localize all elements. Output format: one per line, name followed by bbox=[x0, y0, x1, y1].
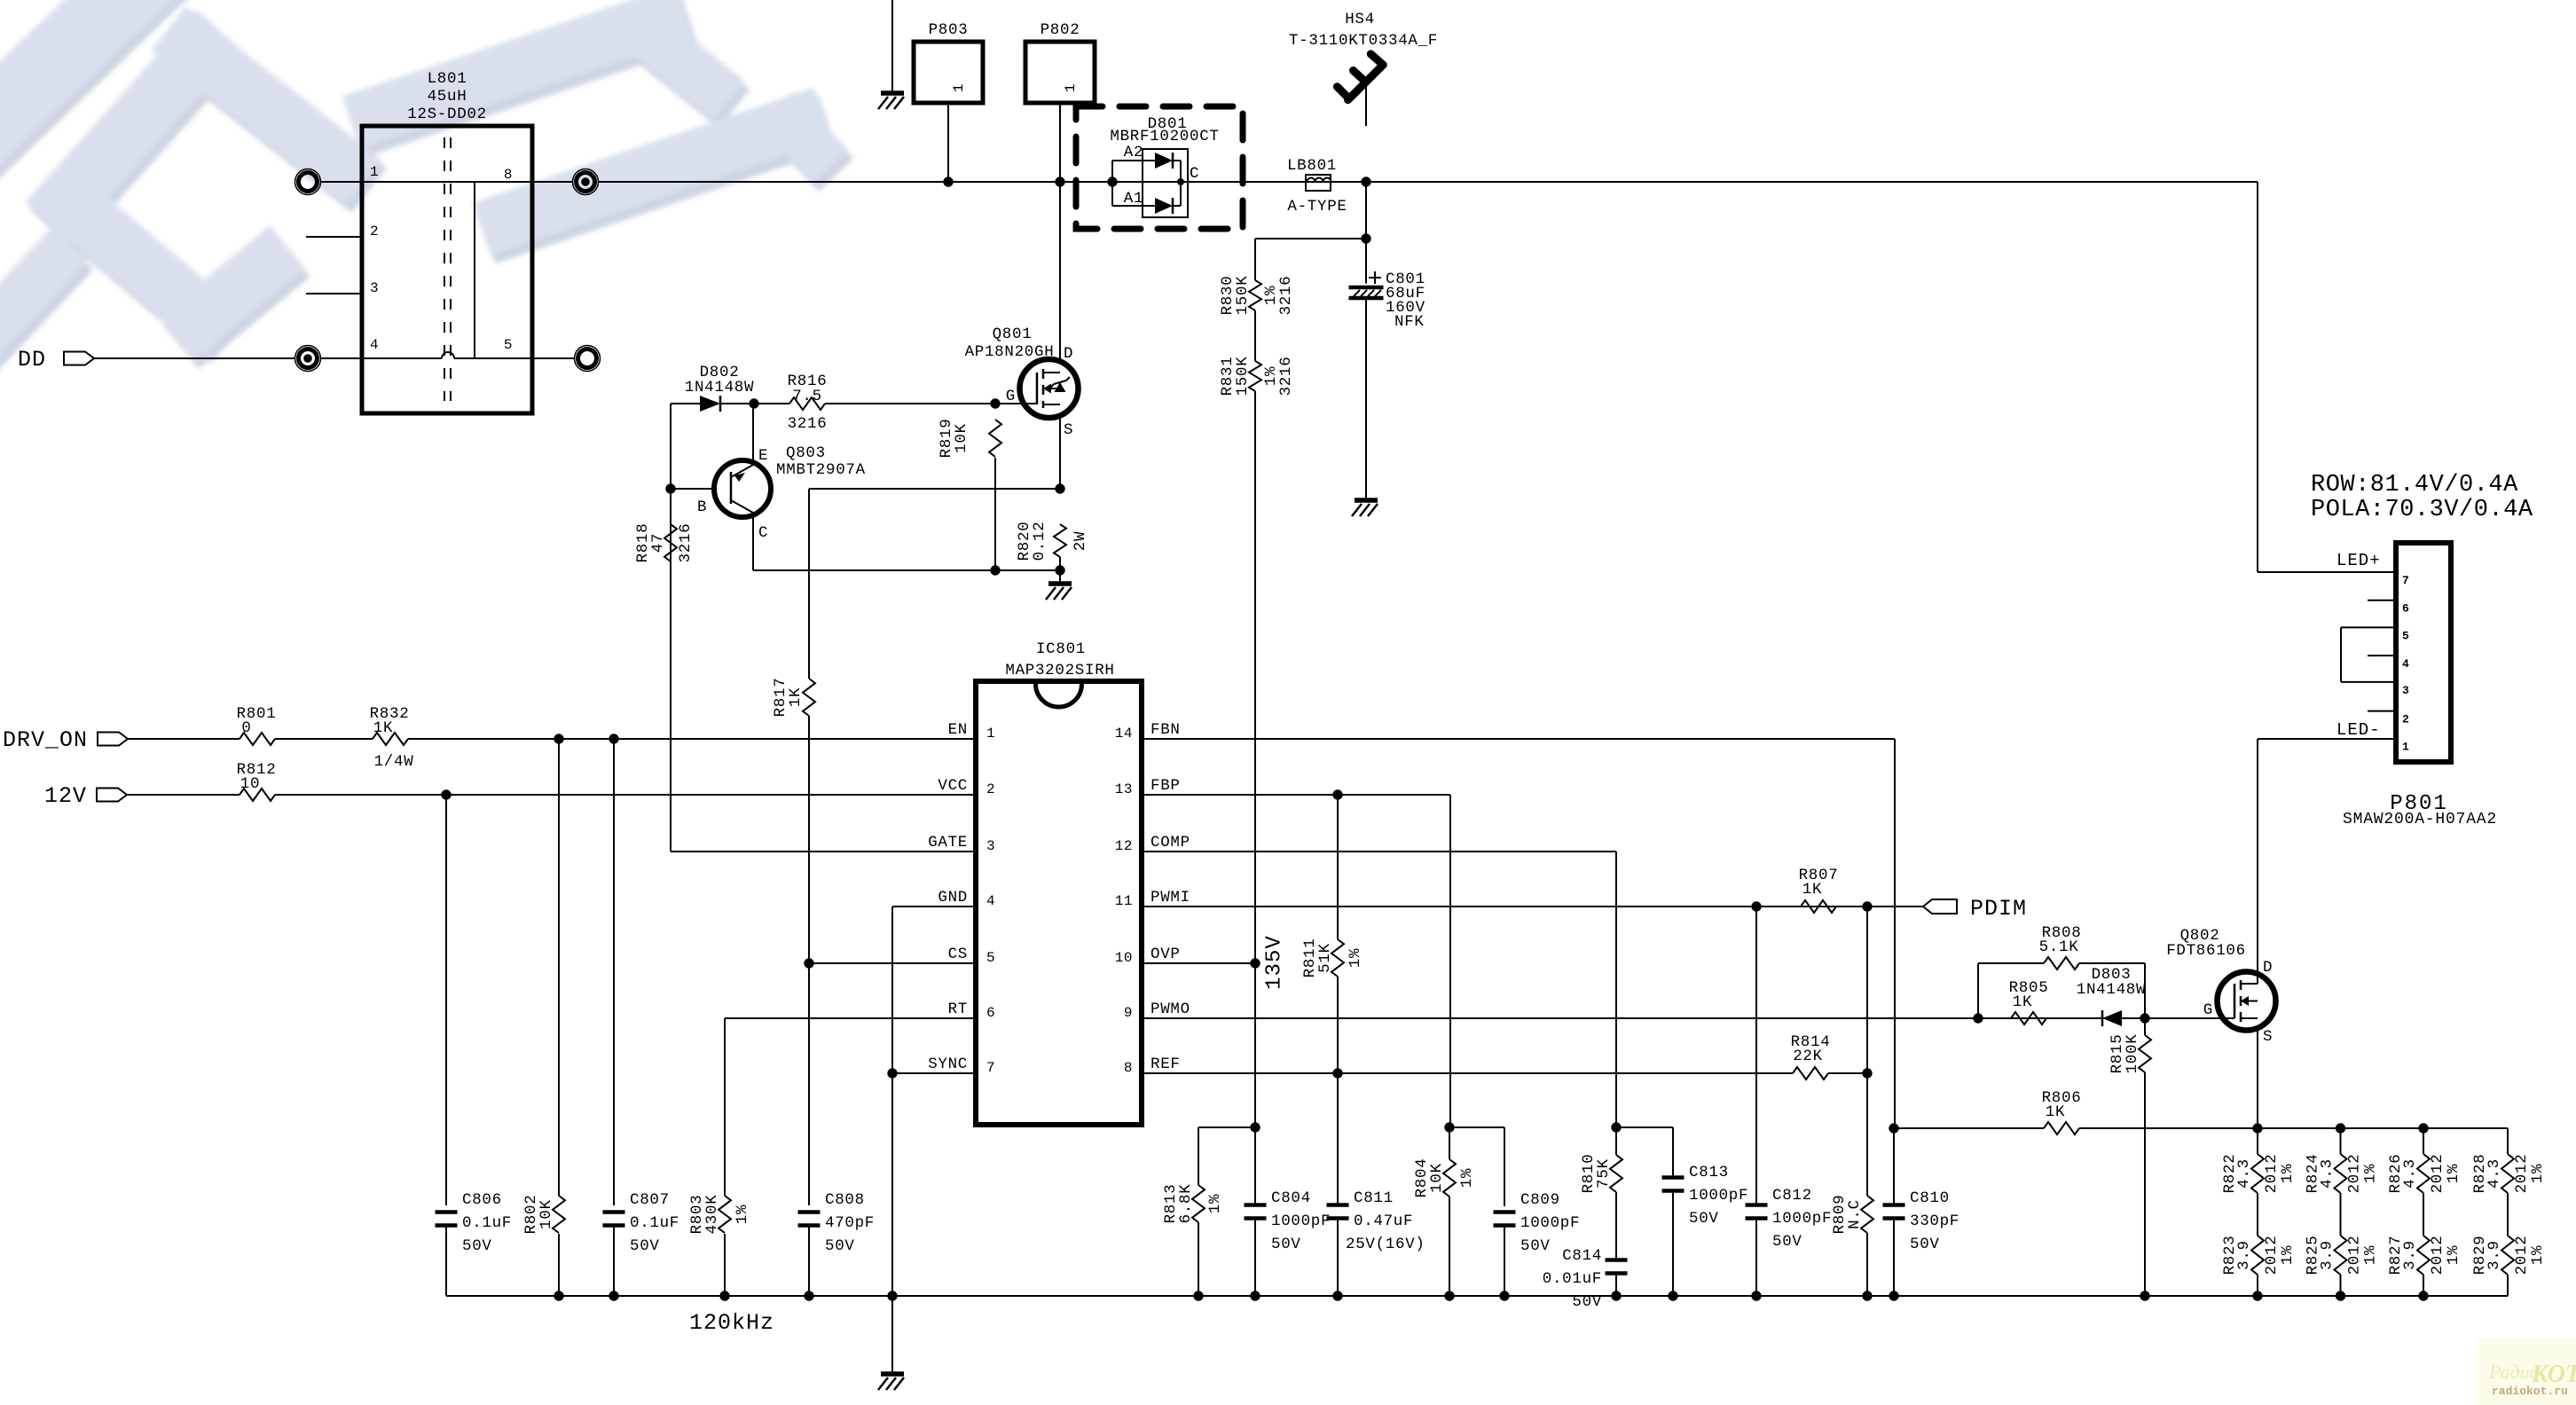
node GND/bus bbox=[887, 1291, 897, 1300]
svg-text:Q803: Q803 bbox=[786, 444, 826, 462]
svg-text:ROW:81.4V/0.4A: ROW:81.4V/0.4A bbox=[2311, 472, 2518, 498]
L801 core bbox=[444, 137, 445, 401]
node R823/bus bbox=[2252, 1291, 2262, 1300]
node R819 top junction bbox=[990, 398, 1000, 408]
resistor R806 1K bbox=[1894, 1127, 2044, 1129]
node Q802 source/R806 junction bbox=[2252, 1123, 2262, 1133]
wire COMP pin12 bbox=[1142, 851, 1616, 852]
svg-text:5: 5 bbox=[986, 950, 995, 966]
svg-text:2: 2 bbox=[2402, 713, 2409, 726]
svg-text:50V: 50V bbox=[630, 1237, 660, 1255]
svg-text:13: 13 bbox=[1115, 781, 1133, 797]
svg-text:1%: 1% bbox=[1206, 1194, 1224, 1213]
node R820 bottom junction bbox=[1055, 565, 1064, 575]
svg-text:150K: 150K bbox=[1234, 276, 1252, 316]
svg-text:4.3: 4.3 bbox=[2319, 1158, 2336, 1189]
svg-text:10K: 10K bbox=[953, 423, 970, 453]
svg-text:8: 8 bbox=[504, 167, 513, 183]
svg-text:S: S bbox=[2263, 1028, 2273, 1046]
node R813/bus bbox=[1193, 1291, 1203, 1300]
diode D801-A2 bbox=[1143, 160, 1155, 161]
svg-text:4.3: 4.3 bbox=[2401, 1158, 2419, 1189]
svg-text:1%: 1% bbox=[2279, 1164, 2297, 1183]
svg-text:2012: 2012 bbox=[2513, 1236, 2531, 1275]
wire D801 anode bracket bbox=[1111, 161, 1113, 182]
resistor R822 4.3 2012 1% bbox=[2257, 1128, 2258, 1154]
node C809/bus bbox=[1499, 1291, 1509, 1300]
svg-text:4: 4 bbox=[2402, 657, 2409, 671]
wire P803 to bus bbox=[947, 103, 949, 182]
svg-text:12S-DD02: 12S-DD02 bbox=[407, 106, 487, 123]
node D802/R816/Q803-E junction bbox=[749, 398, 758, 408]
node C807 junction bbox=[609, 734, 618, 743]
node R814/R809 junction bbox=[1862, 1068, 1872, 1078]
resistor R823 3.9 2012 1% bbox=[2251, 1236, 2264, 1275]
wire C801 to ground bbox=[1365, 298, 1367, 500]
svg-text:150K: 150K bbox=[1234, 357, 1252, 396]
node R804/bus bbox=[1444, 1291, 1454, 1300]
svg-text:PDIM: PDIM bbox=[1970, 896, 2027, 922]
connector P802 bbox=[1025, 42, 1095, 103]
svg-text:S: S bbox=[1064, 421, 1073, 439]
node col3 top bbox=[2418, 1123, 2428, 1133]
capacitor C811 0.47uF 25V(16V) bbox=[1327, 1203, 1349, 1207]
resistor R809 N.C bbox=[1861, 1196, 1873, 1233]
wire D802/R816 node rail bbox=[670, 404, 671, 852]
resistor R803 430K 1% bbox=[719, 1196, 731, 1233]
svg-text:DRV_ON: DRV_ON bbox=[3, 727, 88, 753]
svg-text:3.9: 3.9 bbox=[2235, 1240, 2253, 1270]
L801 pin4 pad bbox=[299, 349, 318, 368]
svg-text:50V: 50V bbox=[1520, 1237, 1551, 1255]
node C812/bus bbox=[1751, 1291, 1761, 1300]
svg-text:12V: 12V bbox=[44, 783, 87, 809]
svg-text:5.1K: 5.1K bbox=[2039, 938, 2079, 956]
resistor R802 10K bbox=[558, 739, 560, 1196]
svg-text:radiokot.ru: radiokot.ru bbox=[2492, 1385, 2568, 1398]
wire CS pin5 bbox=[809, 962, 976, 964]
svg-text:GATE: GATE bbox=[928, 834, 968, 852]
svg-text:1N4148W: 1N4148W bbox=[685, 379, 754, 396]
svg-text:8: 8 bbox=[1124, 1060, 1133, 1076]
svg-text:1: 1 bbox=[370, 164, 379, 180]
node C813/bus bbox=[1668, 1291, 1677, 1300]
svg-text:50V: 50V bbox=[1772, 1233, 1802, 1251]
capacitor C809 1000pF 50V bbox=[1504, 1127, 1505, 1206]
svg-text:0.01uF: 0.01uF bbox=[1543, 1270, 1602, 1288]
svg-text:2012: 2012 bbox=[2263, 1236, 2281, 1275]
svg-text:3216: 3216 bbox=[1277, 357, 1295, 396]
node col2 top bbox=[2336, 1123, 2345, 1133]
svg-text:3: 3 bbox=[986, 838, 995, 854]
svg-text:6.8K: 6.8K bbox=[1177, 1184, 1195, 1224]
svg-text:120kHz: 120kHz bbox=[689, 1310, 774, 1336]
svg-text:50V: 50V bbox=[1271, 1236, 1301, 1253]
svg-text:47: 47 bbox=[649, 533, 667, 553]
svg-text:G: G bbox=[1006, 388, 1016, 405]
svg-text:B: B bbox=[697, 498, 707, 516]
svg-text:1/4W: 1/4W bbox=[374, 753, 414, 771]
wire Q801 source bbox=[1059, 418, 1061, 489]
svg-text:1K: 1K bbox=[2013, 993, 2032, 1011]
resistor R826 4.3 2012 1% bbox=[2423, 1128, 2424, 1154]
wire top bus bbox=[598, 181, 2258, 183]
diode D801-A1 bbox=[1143, 205, 1155, 207]
svg-text:2W: 2W bbox=[1072, 531, 1089, 551]
svg-text:10: 10 bbox=[1115, 950, 1133, 966]
resistor R819 10K bbox=[989, 420, 1001, 457]
wire Q802 source bbox=[2257, 1031, 2258, 1128]
svg-text:50V: 50V bbox=[1689, 1210, 1719, 1228]
svg-text:1N4148W: 1N4148W bbox=[2077, 981, 2146, 999]
svg-text:MMBT2907A: MMBT2907A bbox=[776, 461, 866, 479]
svg-text:2012: 2012 bbox=[2429, 1236, 2446, 1275]
L801 pin3 stub bbox=[306, 293, 362, 294]
capacitor C807 0.1uF 50V bbox=[613, 739, 615, 1205]
node R811 top junction bbox=[1332, 789, 1342, 799]
svg-text:4: 4 bbox=[370, 337, 379, 353]
svg-text:6: 6 bbox=[986, 1005, 995, 1021]
svg-text:1000pF: 1000pF bbox=[1271, 1213, 1331, 1230]
resistor R818 47 3216 bbox=[664, 524, 677, 561]
capacitor C808 470pF 50V bbox=[798, 1210, 821, 1214]
node PWMI/C812 junction bbox=[1751, 901, 1761, 911]
node R802 junction bbox=[554, 734, 563, 743]
svg-text:C806: C806 bbox=[462, 1191, 502, 1209]
svg-text:C808: C808 bbox=[825, 1191, 865, 1209]
node FBP/R804 junction bbox=[1444, 1122, 1454, 1132]
svg-text:1%: 1% bbox=[1458, 1168, 1476, 1188]
resistor R832 1K 1/4W bbox=[275, 738, 373, 740]
resistor R825 3.9 2012 1% bbox=[2335, 1236, 2347, 1275]
svg-text:DD: DD bbox=[18, 347, 46, 373]
wire down to C801 node bbox=[1365, 182, 1367, 239]
wire OVP pin10 bbox=[1142, 962, 1255, 964]
svg-text:C814: C814 bbox=[1562, 1247, 1602, 1265]
svg-text:MBRF10200CT: MBRF10200CT bbox=[1110, 128, 1219, 145]
svg-text:C804: C804 bbox=[1271, 1189, 1311, 1207]
resistor R812 10 bbox=[127, 794, 240, 796]
svg-text:10K: 10K bbox=[1428, 1163, 1446, 1193]
wire to R830 chain bbox=[1255, 238, 1366, 239]
svg-text:D: D bbox=[1064, 345, 1073, 363]
wire sense rail bbox=[2258, 1127, 2508, 1129]
wire PWMO pin9 bbox=[1142, 1017, 2234, 1019]
svg-text:1: 1 bbox=[2402, 740, 2409, 753]
node P803/bus junction bbox=[943, 177, 953, 186]
svg-text:COMP: COMP bbox=[1151, 834, 1190, 852]
ground below R820 bbox=[1048, 581, 1072, 586]
svg-text:0.12: 0.12 bbox=[1031, 522, 1048, 561]
svg-text:7: 7 bbox=[986, 1060, 995, 1076]
svg-text:1%: 1% bbox=[734, 1205, 751, 1224]
svg-text:50V: 50V bbox=[1910, 1236, 1940, 1253]
P801 pin4 stub bbox=[2368, 655, 2396, 656]
svg-text:Q801: Q801 bbox=[993, 326, 1033, 343]
svg-text:2: 2 bbox=[370, 224, 379, 239]
L801 pin8 pad bbox=[532, 181, 572, 183]
svg-text:430K: 430K bbox=[703, 1195, 721, 1235]
diode D801 MBRF10200CT (dual, in dashed box) bbox=[1076, 106, 1243, 229]
svg-text:1K: 1K bbox=[1802, 881, 1822, 899]
svg-text:25V(16V): 25V(16V) bbox=[1346, 1236, 1425, 1253]
P801 pin5-3 jumper bbox=[2341, 626, 2396, 628]
svg-text:3.9: 3.9 bbox=[2401, 1240, 2419, 1270]
svg-text:1%: 1% bbox=[2279, 1245, 2297, 1265]
svg-text:50V: 50V bbox=[825, 1237, 855, 1255]
wire to ground bbox=[1059, 570, 1061, 584]
wire LED+ from top bus bbox=[2257, 182, 2258, 572]
node SYNC/GND junction bbox=[887, 1068, 897, 1078]
wire PWMI pin11 bbox=[1142, 906, 1923, 907]
resistor R827 3.9 2012 1% bbox=[2417, 1236, 2430, 1275]
svg-text:2012: 2012 bbox=[2429, 1154, 2446, 1194]
svg-text:C813: C813 bbox=[1689, 1164, 1729, 1181]
node P802/bus junction bbox=[1055, 177, 1064, 186]
svg-text:4.3: 4.3 bbox=[2235, 1158, 2253, 1189]
svg-text:NFK: NFK bbox=[1394, 313, 1425, 331]
resistor R815 100K bbox=[2144, 1018, 2146, 1035]
svg-text:1%: 1% bbox=[2529, 1164, 2547, 1183]
node 135V/R813 junction bbox=[1250, 1122, 1260, 1132]
resistor R811 51K 1% bbox=[1337, 795, 1339, 939]
svg-text:1K: 1K bbox=[787, 687, 805, 707]
svg-text:135V: 135V bbox=[1263, 935, 1287, 990]
svg-text:C809: C809 bbox=[1520, 1191, 1560, 1209]
svg-text:1000pF: 1000pF bbox=[1520, 1214, 1580, 1232]
svg-text:1%: 1% bbox=[2529, 1245, 2547, 1265]
wire VCC line bbox=[275, 794, 976, 796]
svg-text:PWMI: PWMI bbox=[1151, 889, 1190, 907]
node D801 anode junction bbox=[1107, 177, 1117, 186]
svg-text:470pF: 470pF bbox=[825, 1214, 875, 1232]
svg-text:A1: A1 bbox=[1124, 190, 1143, 208]
wire P802 to bus to Q801 drain bbox=[1059, 103, 1061, 359]
svg-text:1000pF: 1000pF bbox=[1772, 1210, 1832, 1228]
svg-text:LED+: LED+ bbox=[2336, 551, 2381, 570]
svg-text:HS4: HS4 bbox=[1345, 11, 1375, 28]
svg-text:3: 3 bbox=[370, 280, 379, 296]
svg-text:5: 5 bbox=[2402, 629, 2409, 642]
svg-text:45uH: 45uH bbox=[428, 88, 467, 106]
svg-text:1%: 1% bbox=[2445, 1164, 2462, 1183]
svg-text:P803: P803 bbox=[929, 21, 969, 39]
node R815/bus bbox=[2140, 1291, 2149, 1300]
wire gate node rail bbox=[809, 488, 1060, 490]
svg-text:IC801: IC801 bbox=[1036, 640, 1086, 658]
svg-text:A2: A2 bbox=[1124, 144, 1143, 161]
node R808 branch lower junction bbox=[1973, 1013, 1983, 1023]
wire GND pin4 bbox=[892, 906, 976, 907]
resistor R813 6.8K 1% bbox=[1198, 1126, 1255, 1128]
node D803/R808/R815 junction bbox=[2140, 1013, 2149, 1023]
wire REF pin8 bbox=[1142, 1072, 1793, 1074]
node CS/R817 junction bbox=[804, 958, 813, 968]
svg-text:3216: 3216 bbox=[1277, 276, 1295, 316]
node R811/REF junction bbox=[1332, 1068, 1342, 1078]
svg-text:5: 5 bbox=[504, 337, 513, 353]
svg-text:FBN: FBN bbox=[1151, 721, 1181, 739]
svg-text:3216: 3216 bbox=[677, 523, 695, 563]
svg-text:2012: 2012 bbox=[2513, 1154, 2531, 1194]
wire ground bus bbox=[446, 1295, 2508, 1297]
svg-text:6: 6 bbox=[2402, 602, 2409, 616]
svg-text:4: 4 bbox=[986, 893, 995, 909]
svg-text:C810: C810 bbox=[1910, 1189, 1950, 1207]
node C814/bus bbox=[1611, 1291, 1621, 1300]
svg-text:4.3: 4.3 bbox=[2486, 1158, 2503, 1189]
capacitor C813 1000pF 50V bbox=[1672, 1127, 1674, 1179]
wire FBN pin14 bbox=[1142, 738, 1895, 740]
svg-text:LED-: LED- bbox=[2336, 720, 2381, 740]
svg-text:D: D bbox=[2263, 959, 2273, 977]
svg-text:1000pF: 1000pF bbox=[1689, 1187, 1748, 1205]
D801 package outline bbox=[1143, 149, 1188, 217]
svg-text:51K: 51K bbox=[1316, 943, 1334, 973]
node COMP/R810 junction bbox=[1611, 1122, 1621, 1132]
resistor R824 4.3 2012 1% bbox=[2340, 1128, 2342, 1154]
node OVP/135V junction bbox=[1250, 958, 1260, 968]
svg-text:1K: 1K bbox=[2046, 1103, 2065, 1121]
svg-text:FDT86106: FDT86106 bbox=[2166, 942, 2246, 960]
node R807/PDIM junction bbox=[1862, 901, 1872, 911]
svg-text:11: 11 bbox=[1115, 893, 1133, 909]
connector P801 SMAW200A-H07AA2 bbox=[2396, 543, 2451, 762]
wire R830-R831 bbox=[1254, 310, 1256, 361]
wire RT pin6 bbox=[725, 1017, 976, 1019]
resistor R820 0.12 2W bbox=[1054, 524, 1066, 557]
svg-text:1: 1 bbox=[986, 726, 995, 742]
svg-text:REF: REF bbox=[1151, 1056, 1181, 1073]
ground below C801 bbox=[1355, 498, 1378, 503]
L801 pin1 pad bbox=[299, 173, 318, 192]
svg-text:2012: 2012 bbox=[2346, 1236, 2364, 1275]
wire DD to L801 pin4 bbox=[94, 357, 295, 359]
svg-text:P802: P802 bbox=[1041, 21, 1080, 39]
svg-text:3.9: 3.9 bbox=[2486, 1240, 2503, 1270]
svg-text:2: 2 bbox=[986, 781, 995, 797]
node C806 junction bbox=[441, 789, 451, 799]
resistor R829 3.9 2012 1% bbox=[2501, 1236, 2514, 1275]
svg-text:GND: GND bbox=[938, 889, 968, 907]
connector P803 bbox=[914, 42, 983, 103]
svg-text:22K: 22K bbox=[1793, 1048, 1823, 1065]
node R803/bus bbox=[719, 1291, 729, 1300]
node Q803 base junction bbox=[665, 483, 675, 493]
resistor R808 5.1K (bypass) bbox=[1977, 963, 1979, 1018]
resistor R831 150K bbox=[1249, 361, 1261, 391]
ground bottom bbox=[881, 1371, 904, 1377]
node R825/bus bbox=[2336, 1291, 2345, 1300]
wire Q803 emitter bbox=[752, 404, 754, 465]
svg-text:PWMO: PWMO bbox=[1151, 1001, 1190, 1018]
resistor R801 0 bbox=[128, 738, 240, 740]
svg-text:POLA:70.3V/0.4A: POLA:70.3V/0.4A bbox=[2311, 497, 2533, 523]
svg-text:MAP3202SIRH: MAP3202SIRH bbox=[1005, 662, 1114, 679]
svg-text:LB801: LB801 bbox=[1287, 157, 1337, 175]
node C810/bus bbox=[1889, 1291, 1898, 1300]
svg-text:VCC: VCC bbox=[938, 777, 968, 795]
svg-text:9: 9 bbox=[1124, 1005, 1133, 1021]
svg-text:1%: 1% bbox=[2362, 1164, 2380, 1183]
svg-text:10K: 10K bbox=[538, 1199, 555, 1229]
svg-text:100K: 100K bbox=[2124, 1034, 2141, 1074]
svg-text:RT: RT bbox=[948, 1001, 968, 1018]
svg-text:SMAW200A-H07AA2: SMAW200A-H07AA2 bbox=[2343, 811, 2497, 828]
wire LED- bbox=[2258, 738, 2396, 740]
svg-text:C807: C807 bbox=[630, 1191, 670, 1209]
svg-text:14: 14 bbox=[1115, 726, 1133, 742]
wire to bottom ground bbox=[891, 1296, 893, 1374]
node Q801 source junction bbox=[1055, 483, 1064, 493]
node C804/bus bbox=[1250, 1291, 1260, 1300]
L801 pin5 pad bbox=[532, 357, 574, 359]
wire FBP pin13 bbox=[1142, 794, 1450, 796]
svg-text:FBP: FBP bbox=[1151, 777, 1181, 795]
svg-text:1%: 1% bbox=[2362, 1245, 2380, 1265]
svg-text:1%: 1% bbox=[1347, 948, 1364, 968]
svg-text:L801: L801 bbox=[428, 70, 467, 88]
node C801/R830 junction bbox=[1361, 233, 1370, 243]
port PDIM bbox=[1923, 899, 1957, 914]
svg-text:0.47uF: 0.47uF bbox=[1354, 1213, 1413, 1230]
node C808/bus bbox=[804, 1291, 813, 1300]
wire EN line bbox=[408, 738, 976, 740]
svg-text:T-3110KT0334A_F: T-3110KT0334A_F bbox=[1289, 32, 1438, 50]
capacitor C812 1000pF 50V bbox=[1746, 1203, 1768, 1207]
svg-text:G: G bbox=[2203, 1001, 2213, 1019]
svg-text:330pF: 330pF bbox=[1910, 1213, 1959, 1230]
L801 pin2 stub bbox=[306, 236, 362, 238]
svg-text:50V: 50V bbox=[1572, 1293, 1602, 1311]
svg-text:1: 1 bbox=[951, 83, 967, 92]
resistor R830 150K bbox=[1249, 280, 1261, 310]
svg-text:1: 1 bbox=[1063, 83, 1079, 92]
svg-text:3216: 3216 bbox=[788, 415, 828, 433]
svg-text:3: 3 bbox=[2402, 684, 2409, 697]
svg-text:SYNC: SYNC bbox=[928, 1056, 968, 1073]
P801 pin6 stub bbox=[2368, 600, 2396, 601]
node R819 bottom junction bbox=[990, 565, 1000, 575]
capacitor C804 1000pF 50V bbox=[1254, 963, 1256, 1206]
node LB801 output junction bbox=[1361, 177, 1370, 186]
svg-text:OVP: OVP bbox=[1151, 946, 1181, 963]
svg-text:EN: EN bbox=[948, 721, 968, 739]
svg-text:0.1uF: 0.1uF bbox=[630, 1214, 679, 1232]
svg-text:2012: 2012 bbox=[2346, 1154, 2364, 1194]
wire HS4 stub bbox=[1365, 82, 1367, 126]
node R809/bus bbox=[1862, 1291, 1872, 1300]
ground top-center bbox=[891, 0, 893, 93]
node C807/bus bbox=[609, 1291, 618, 1300]
node R827/bus bbox=[2418, 1291, 2428, 1300]
capacitor C814 0.01uF 50V bbox=[1615, 1192, 1617, 1260]
capacitor C801 68uF 160V (electrolytic) bbox=[1365, 239, 1367, 284]
resistor R828 4.3 2012 1% bbox=[2501, 1154, 2514, 1193]
wire Q802 drain to LED- bbox=[2257, 739, 2258, 984]
svg-text:A-TYPE: A-TYPE bbox=[1287, 198, 1347, 216]
capacitor C810 330pF 50V bbox=[1893, 1128, 1895, 1206]
svg-text:N.C: N.C bbox=[1846, 1199, 1864, 1229]
svg-text:2012: 2012 bbox=[2263, 1154, 2281, 1194]
svg-text:C: C bbox=[1190, 165, 1199, 183]
watermark radiokot bbox=[2477, 1338, 2576, 1405]
capacitor C806 0.1uF 50V bbox=[436, 1210, 458, 1214]
wire Q803 collector bbox=[752, 513, 754, 570]
svg-text:1%: 1% bbox=[2445, 1245, 2462, 1265]
node C811/bus bbox=[1332, 1291, 1342, 1300]
svg-text:CS: CS bbox=[948, 946, 968, 963]
